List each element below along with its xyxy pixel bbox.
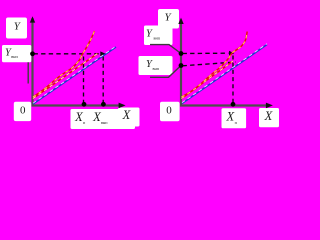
dashed horizontal lower (right)	[183, 62, 237, 66]
axis X (left)	[32, 104, 121, 106]
svg-text:внп: внп	[154, 36, 161, 41]
red straight line (right)	[182, 61, 234, 99]
red straight line (left)	[33, 54, 98, 99]
leader from Y_vnp1 box to upper dot (right)	[150, 45, 181, 54]
callout line under Y_vnp box	[27, 62, 29, 83]
dot on X axis at X_p (left)	[82, 102, 87, 107]
axis Y (left)	[31, 18, 33, 107]
dashed horizontal upper (right)	[183, 52, 229, 54]
label box X_p (right)	[222, 108, 247, 128]
svg-text:0: 0	[20, 105, 26, 117]
dashed vertical at X_p (right)	[232, 56, 234, 103]
dashed vertical at X_vnp (left)	[102, 57, 104, 103]
label box 0 (left)	[14, 102, 31, 121]
label box Y_vnp (left)	[2, 45, 31, 62]
dashed horizontal at Y_vnp level (left)	[34, 53, 100, 55]
axis X (right)	[180, 104, 267, 106]
svg-text:X: X	[264, 109, 274, 123]
dot on Y axis (left)	[30, 51, 35, 56]
axis Y (right)	[180, 20, 182, 107]
blue line (left)	[33, 47, 116, 104]
arrowhead at end of dashed horizontal (left)	[100, 51, 105, 56]
arrowhead Y axis (right)	[178, 18, 183, 24]
dot on X axis at X_p (right)	[231, 102, 236, 107]
label box Y_vnp2 (right)	[139, 56, 173, 75]
label box Y (left top)	[6, 18, 27, 39]
label box X_p X_vnp (left bottom)	[71, 109, 136, 129]
svg-text:внп: внп	[153, 66, 160, 71]
label box 0 (right)	[160, 102, 180, 122]
arrowhead Y axis (left)	[30, 16, 35, 22]
svg-text:0: 0	[166, 105, 172, 117]
dot on X axis at X_vnp (left)	[101, 102, 106, 107]
svg-text:X: X	[122, 108, 132, 122]
label box Y (right top)	[158, 9, 179, 29]
arrowhead X axis (left)	[119, 103, 126, 109]
leader from Y_vnp2 box to lower dot (right)	[150, 66, 181, 78]
red curve (right)	[182, 32, 248, 98]
dot lower on Y axis (right)	[179, 63, 184, 68]
svg-text:внп: внп	[101, 120, 108, 125]
red curve (left)	[33, 31, 95, 97]
blue line (right)	[182, 45, 267, 104]
arrowhead at end of upper dashed (right)	[229, 51, 234, 56]
dashed vertical at X_p (left)	[83, 57, 85, 103]
label box X (right)	[259, 108, 279, 127]
dot upper on Y axis (right)	[179, 51, 184, 56]
label box Y_vnp1 (right)	[144, 26, 173, 46]
svg-text:внп: внп	[11, 54, 18, 59]
label box X (left bottom right)	[118, 108, 140, 127]
arrowhead X axis (right)	[266, 103, 273, 109]
